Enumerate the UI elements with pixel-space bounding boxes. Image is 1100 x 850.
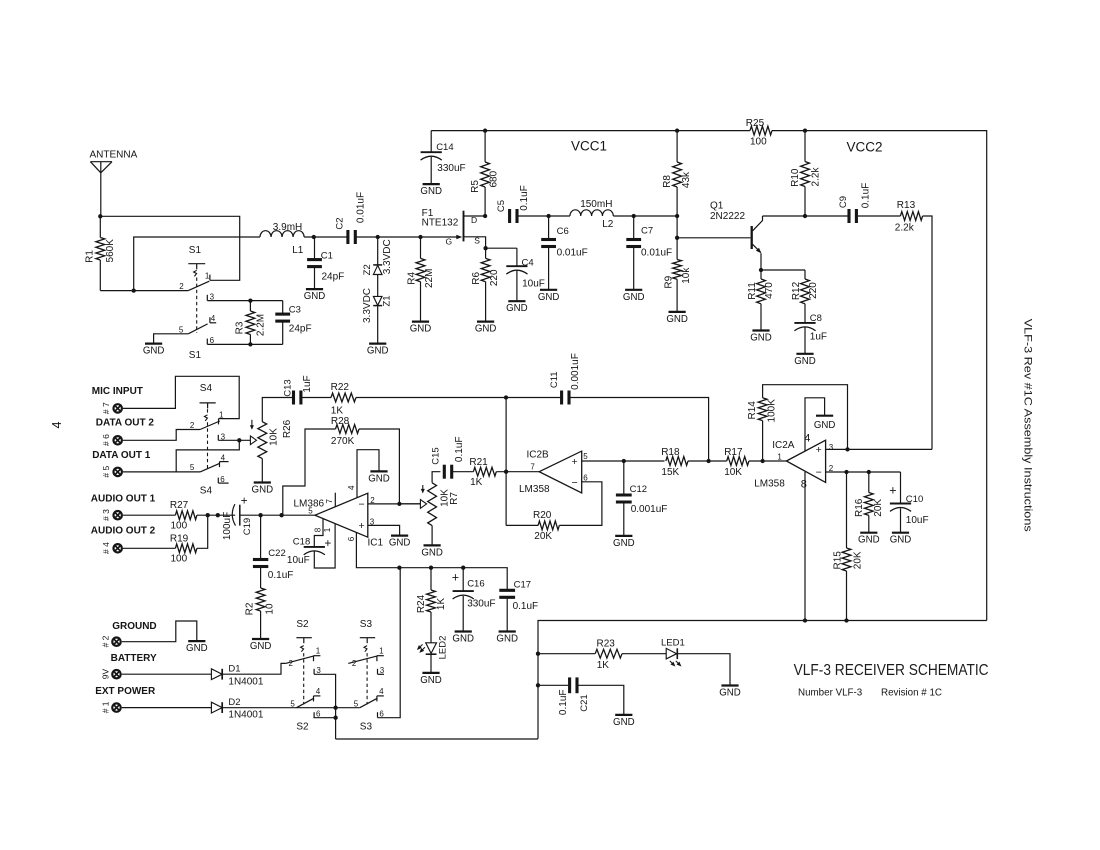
connector #3 pin label <box>101 509 111 521</box>
connector #4 <box>112 543 123 554</box>
S1 pole1 arm <box>188 281 209 290</box>
ground C14 <box>420 184 442 197</box>
node R24 top <box>429 566 433 570</box>
Z1 value <box>362 288 373 323</box>
wire C12 bottom lead <box>623 502 625 536</box>
svg-text:R27: R27 <box>170 500 189 511</box>
IC2A pin8 stub <box>804 472 806 621</box>
resistor R2 <box>256 588 265 611</box>
svg-text:4: 4 <box>347 485 356 490</box>
wire C3 bottom lead <box>282 321 284 344</box>
S2 pin6 number <box>316 709 321 718</box>
svg-text:R9: R9 <box>663 275 674 288</box>
svg-text:S1: S1 <box>189 245 202 256</box>
resistor R23 <box>595 649 622 658</box>
svg-text:C10: C10 <box>906 494 923 505</box>
svg-text:C17: C17 <box>514 579 531 590</box>
svg-text:IC2A: IC2A <box>772 440 795 451</box>
C19 ref <box>242 518 253 535</box>
svg-text:5: 5 <box>179 325 184 334</box>
svg-text:GND: GND <box>389 538 411 549</box>
wire C19 to LM386 <box>240 514 315 516</box>
capacitor C13 <box>294 391 301 405</box>
node LM386 input <box>279 513 283 517</box>
svg-text:−: − <box>572 477 578 489</box>
wire R6 bottom lead <box>485 282 487 322</box>
wire R17 to IC2A <box>749 460 787 462</box>
svg-text:AUDIO OUT 2: AUDIO OUT 2 <box>91 525 156 536</box>
connector 9V pin label <box>100 668 110 679</box>
AUDIO OUT 2 label <box>91 525 156 536</box>
wire C22 top lead <box>260 515 262 559</box>
op-amp IC2A LM358 triangle <box>786 440 825 482</box>
C12 value <box>631 504 668 515</box>
resistor R8 value <box>681 171 692 188</box>
C16 value <box>467 598 495 609</box>
IC1 pin3 number <box>370 517 375 526</box>
node C22 top <box>258 513 262 517</box>
IC2B pin6 number <box>583 474 588 483</box>
Q1 part number <box>710 211 745 222</box>
node IC2B out junction <box>504 470 508 474</box>
wire R24 top lead <box>430 568 432 590</box>
svg-text:C19: C19 <box>242 518 253 535</box>
resistor R16 ref <box>854 498 865 517</box>
node R3 bottom <box>248 342 252 346</box>
page number <box>50 421 64 428</box>
svg-text:24pF: 24pF <box>322 271 345 282</box>
S4 dashed link <box>207 422 209 470</box>
capacitor C21 <box>570 677 577 693</box>
svg-text:C7: C7 <box>641 225 653 236</box>
resistor R12 ref <box>791 281 802 300</box>
IC2A ref <box>772 440 795 451</box>
svg-text:GND: GND <box>368 473 390 484</box>
S3 pin3 number <box>380 666 385 675</box>
switch S4 bottom label <box>200 485 213 496</box>
wire R23 to LED1 <box>622 653 666 655</box>
connector #6 pin label <box>101 434 111 446</box>
svg-text:R21: R21 <box>469 457 488 468</box>
wire R8 top lead <box>676 131 678 162</box>
node S2 S3 mid <box>333 706 337 710</box>
svg-text:6: 6 <box>220 475 225 484</box>
wire V+ to big rail <box>336 738 538 740</box>
wire R15 bottom lead <box>846 571 848 621</box>
resistor R6 value <box>489 269 500 286</box>
C19 value <box>222 512 233 540</box>
svg-text:GND: GND <box>496 634 518 645</box>
S4 actuator bar <box>200 403 216 409</box>
svg-text:1: 1 <box>379 647 384 656</box>
resistor R11 ref <box>747 282 758 300</box>
resistor R5 ref <box>470 180 481 193</box>
svg-text:GND: GND <box>452 634 474 645</box>
ground R9 <box>666 312 688 325</box>
C14 value <box>437 163 465 174</box>
switch S1 top label <box>189 245 202 256</box>
node R10 VCC2 <box>803 128 807 132</box>
switch S4 top label <box>200 383 213 394</box>
svg-text:S2: S2 <box>296 619 309 630</box>
resistor R25 value <box>750 136 767 147</box>
svg-text:100K: 100K <box>766 399 777 423</box>
S1 break symbol <box>194 270 197 276</box>
wire R7 bottom lead <box>431 526 433 546</box>
svg-text:S3: S3 <box>360 619 373 630</box>
resistor R1 ref <box>84 250 95 263</box>
wire data out 2 to S4 pin2 <box>123 430 200 441</box>
svg-text:C16: C16 <box>467 578 484 589</box>
svg-text:100: 100 <box>171 553 188 564</box>
IC1 pin1 stub <box>314 524 335 568</box>
wire ext power to D2 <box>122 707 212 709</box>
capacitor C2 <box>348 230 355 244</box>
node pin6 S3 riser <box>397 566 401 570</box>
resistor R1 <box>96 238 105 261</box>
svg-text:R24: R24 <box>416 594 427 613</box>
wire R3 top lead <box>249 301 251 311</box>
resistor R12 <box>801 279 810 304</box>
S2 pin 1 contact <box>314 656 321 662</box>
S4 pin5 number <box>190 463 195 472</box>
IC1 pin1 number <box>323 527 332 532</box>
svg-text:GND: GND <box>250 641 272 652</box>
wire C16 top lead <box>462 568 464 591</box>
F1 D pin <box>471 215 477 225</box>
C21 value <box>558 690 569 716</box>
wire IC1 pin2 out <box>368 503 421 505</box>
node R3 top <box>248 298 252 302</box>
svg-text:GND: GND <box>814 420 836 431</box>
S3 pin6 number <box>379 709 384 718</box>
svg-text:AUDIO OUT 1: AUDIO OUT 1 <box>91 493 156 504</box>
IC2A pin4 stub <box>805 398 825 451</box>
DATA OUT 2 label <box>96 418 155 429</box>
resistor R9 ref <box>663 275 674 288</box>
resistor R1 value <box>105 239 116 263</box>
svg-text:R26: R26 <box>282 419 293 438</box>
node R10 bottom <box>803 214 807 218</box>
svg-text:1: 1 <box>316 647 321 656</box>
wire L2 to C7 <box>613 215 633 217</box>
capacitor C5 <box>510 209 517 223</box>
S4 pin2 number <box>190 421 195 430</box>
svg-text:VLF-3 Rev #1C Assembly Instruc: VLF-3 Rev #1C Assembly Instructions <box>1022 319 1034 533</box>
R26 value <box>269 428 280 446</box>
ground R6 <box>475 322 497 335</box>
wire S4 pin3 to R26 wiper <box>218 439 250 441</box>
svg-text:S1: S1 <box>189 350 202 361</box>
wire R10 top lead <box>804 131 806 162</box>
diode D2 <box>211 702 222 713</box>
node antenna junction <box>98 214 102 218</box>
svg-text:C6: C6 <box>557 226 569 237</box>
inductor L1 <box>260 231 304 237</box>
svg-text:D1: D1 <box>228 663 240 674</box>
svg-text:9V: 9V <box>100 668 110 679</box>
antenna <box>90 162 112 217</box>
svg-text:GROUND: GROUND <box>112 621 156 632</box>
wire LED1 to GND <box>677 654 730 686</box>
wire pin6 rail <box>399 568 507 590</box>
svg-text:R23: R23 <box>597 638 616 649</box>
svg-text:GND: GND <box>304 291 326 302</box>
DATA OUT 1 label <box>92 450 151 461</box>
node R21 top junction <box>504 395 508 399</box>
resistor R3 <box>246 311 255 335</box>
switch S1 bottom label <box>189 350 202 361</box>
page side text <box>1022 319 1034 533</box>
svg-text:Z1: Z1 <box>381 295 392 306</box>
S2 dashed link <box>303 653 305 704</box>
capacitor C19 <box>232 504 240 525</box>
wire R21 to IC2B out <box>496 471 539 473</box>
ground C10 <box>890 533 912 546</box>
ground LED2 <box>420 673 442 686</box>
S2 pole2 arm <box>296 698 314 708</box>
D1 ref <box>228 663 240 674</box>
Z2 ref <box>362 264 373 275</box>
svg-text:0.1uF: 0.1uF <box>513 601 539 612</box>
resistor R19 value <box>171 553 188 564</box>
S2 pin 6 contact <box>313 712 315 718</box>
S2 pin 4 contact <box>314 696 321 702</box>
C18 plus <box>324 536 331 550</box>
svg-text:R15: R15 <box>833 551 844 570</box>
ground connector gnd <box>186 641 208 654</box>
transistor Q1 bar <box>751 226 753 249</box>
node S4 pin3 junction <box>237 438 241 442</box>
svg-text:BATTERY: BATTERY <box>111 653 157 664</box>
C21 ref <box>579 694 590 711</box>
capacitor C9 <box>849 209 856 223</box>
wire R26 bottom lead <box>261 459 263 483</box>
IC1 type <box>294 499 325 510</box>
svg-text:5: 5 <box>190 463 195 472</box>
C6 ref <box>557 226 569 237</box>
S1 dashed link <box>196 278 198 334</box>
connector #7 <box>112 403 123 414</box>
svg-text:0.01uF: 0.01uF <box>641 247 672 258</box>
ground R4 <box>410 322 432 335</box>
F1 G pin <box>446 236 453 246</box>
wire VCC1 rail <box>431 130 750 132</box>
resistor R10 ref <box>790 168 801 187</box>
svg-text:6: 6 <box>583 474 588 483</box>
S3 pin 3 contact <box>377 669 379 675</box>
resistor R18 ref <box>661 447 680 458</box>
MIC INPUT label <box>92 386 143 397</box>
svg-text:# 2: # 2 <box>100 635 110 647</box>
svg-text:S3: S3 <box>360 722 373 733</box>
wire data out 1 to pin3 node <box>123 471 200 473</box>
wire C5 to L2 node <box>517 215 549 217</box>
svg-text:2: 2 <box>352 659 357 668</box>
IC2B plus <box>572 456 578 468</box>
C9 ref <box>838 196 849 208</box>
S2 pin2 number <box>289 659 294 668</box>
svg-text:GND: GND <box>719 688 741 699</box>
svg-text:C8: C8 <box>810 313 822 324</box>
C3 ref <box>289 304 301 315</box>
svg-text:C11: C11 <box>549 371 560 388</box>
switch S2 bottom label <box>296 722 309 733</box>
zener Z1 <box>373 296 382 305</box>
resistor R28 ref <box>331 416 350 427</box>
svg-text:GND: GND <box>613 717 635 728</box>
LED2 <box>417 643 437 654</box>
svg-text:Z2: Z2 <box>362 264 373 275</box>
wire Z2 top lead <box>377 237 379 265</box>
wire C8 bottom lead <box>804 328 806 354</box>
svg-text:R16: R16 <box>854 498 865 517</box>
S2 pole1 arm <box>286 656 314 664</box>
inductor L2 <box>570 210 613 216</box>
wire R11 bottom lead <box>760 304 762 331</box>
S4 pin 6 contact <box>218 478 228 484</box>
ground C8 <box>794 354 816 367</box>
wire S3 pin6 riser <box>378 568 401 718</box>
svg-text:GND: GND <box>475 324 497 335</box>
IC1 minus <box>359 498 365 510</box>
capacitor C3 <box>275 314 290 321</box>
svg-text:IC2B: IC2B <box>527 449 550 460</box>
svg-text:1uF: 1uF <box>810 331 827 342</box>
svg-text:C4: C4 <box>522 257 534 268</box>
svg-text:10K: 10K <box>724 467 742 478</box>
wire junction up to L1 <box>134 237 260 291</box>
S1 pin 1 contact <box>209 275 211 281</box>
resistor R21 value <box>470 477 483 488</box>
node emitter junction <box>759 268 763 272</box>
EXT POWER label <box>95 686 156 697</box>
svg-text:S: S <box>474 235 480 245</box>
IC2B pin7 number <box>530 463 535 472</box>
wire R12 bottom lead <box>804 304 806 323</box>
svg-text:DATA OUT 1: DATA OUT 1 <box>92 450 151 461</box>
F1 part number <box>422 217 459 228</box>
node R8 VCC1 <box>675 128 679 132</box>
C7 value <box>641 247 672 258</box>
svg-text:S4: S4 <box>200 383 213 394</box>
L1 value <box>273 222 302 233</box>
wire Q1 emitter down <box>760 253 762 270</box>
svg-text:GND: GND <box>420 186 442 197</box>
resistor R5 <box>481 162 490 187</box>
C1 ref <box>321 250 333 261</box>
wire R10 node to C9 <box>805 215 849 217</box>
resistor R24 <box>427 590 436 612</box>
wire R2 bottom lead <box>260 611 262 639</box>
svg-text:6: 6 <box>316 709 321 718</box>
svg-text:GND: GND <box>420 675 442 686</box>
svg-text:0.001uF: 0.001uF <box>631 504 668 515</box>
net VCC2 <box>847 140 883 155</box>
IC1 pin8 stub <box>314 519 323 547</box>
svg-text:0.1uF: 0.1uF <box>519 185 530 211</box>
svg-text:R12: R12 <box>791 281 802 300</box>
IC1 plus <box>359 520 365 532</box>
wire pin2 to R7 wiper <box>399 503 420 505</box>
svg-text:3: 3 <box>829 443 834 452</box>
ground R26 <box>252 483 274 496</box>
svg-text:0.01uF: 0.01uF <box>557 247 588 258</box>
node F1 source <box>483 246 487 250</box>
svg-text:R7: R7 <box>449 492 460 505</box>
S3 pin2 number <box>352 659 357 668</box>
ground C6 <box>538 290 560 303</box>
resistor R24 ref <box>416 594 427 613</box>
wire R9 bottom lead <box>676 279 678 312</box>
node R4 top <box>418 235 422 239</box>
resistor R16 value <box>873 499 884 517</box>
wire R16 bottom lead <box>868 515 870 532</box>
svg-text:4: 4 <box>211 314 216 323</box>
svg-text:IC1: IC1 <box>368 537 384 548</box>
S3 pin4 number <box>379 687 384 696</box>
S4 pin 4 contact <box>220 462 229 468</box>
diode D1 <box>211 669 222 680</box>
ground C17 <box>496 632 518 645</box>
C18 ref <box>293 536 310 547</box>
S2 pin5 number <box>290 699 295 708</box>
IC1 pin7 stub <box>334 493 336 507</box>
S3 break symbol <box>364 646 367 652</box>
capacitor C17 <box>499 590 515 597</box>
net VCC1 <box>571 139 607 154</box>
resistor R14 <box>758 398 767 421</box>
svg-text:EXT POWER: EXT POWER <box>95 686 156 697</box>
svg-text:+: + <box>889 484 896 498</box>
capacitor C12 <box>616 495 632 502</box>
resistor R15 value <box>853 551 864 569</box>
C7 ref <box>641 225 653 236</box>
wire C21 to GND <box>577 685 624 715</box>
resistor R9 value <box>681 267 692 284</box>
svg-text:+: + <box>359 520 365 532</box>
S1 pin5 number <box>179 325 184 334</box>
wire IC2A pin3 <box>826 448 932 450</box>
wire C4 bottom lead <box>516 271 518 301</box>
subtitle revision <box>881 687 942 698</box>
resistor R6 <box>481 258 490 281</box>
svg-text:# 6: # 6 <box>101 434 111 446</box>
svg-text:1N4001: 1N4001 <box>228 710 263 721</box>
svg-text:2.2k: 2.2k <box>811 167 822 187</box>
ground R2 <box>250 639 272 652</box>
S4 pin6 number <box>220 475 225 484</box>
S2 pin4 number <box>316 687 321 696</box>
S3 pin 1 contact <box>377 656 384 662</box>
svg-text:1: 1 <box>777 452 782 461</box>
svg-text:GND: GND <box>367 346 389 357</box>
wire Q1 collector to R10 <box>763 215 806 217</box>
connector #6 <box>112 435 123 446</box>
svg-text:1: 1 <box>323 527 332 532</box>
svg-text:D2: D2 <box>228 697 240 708</box>
LED1 <box>666 648 681 666</box>
resistor R17 value <box>724 467 742 478</box>
ground C4 <box>506 301 528 314</box>
node Z2 top <box>376 235 380 239</box>
svg-text:C1: C1 <box>321 250 333 261</box>
wire base Q1 <box>677 237 750 239</box>
S3 pin 6 contact <box>377 712 379 718</box>
S4 pin3 number <box>221 432 226 441</box>
svg-text:GND: GND <box>506 303 528 314</box>
IC1 pin7 number <box>325 499 334 504</box>
